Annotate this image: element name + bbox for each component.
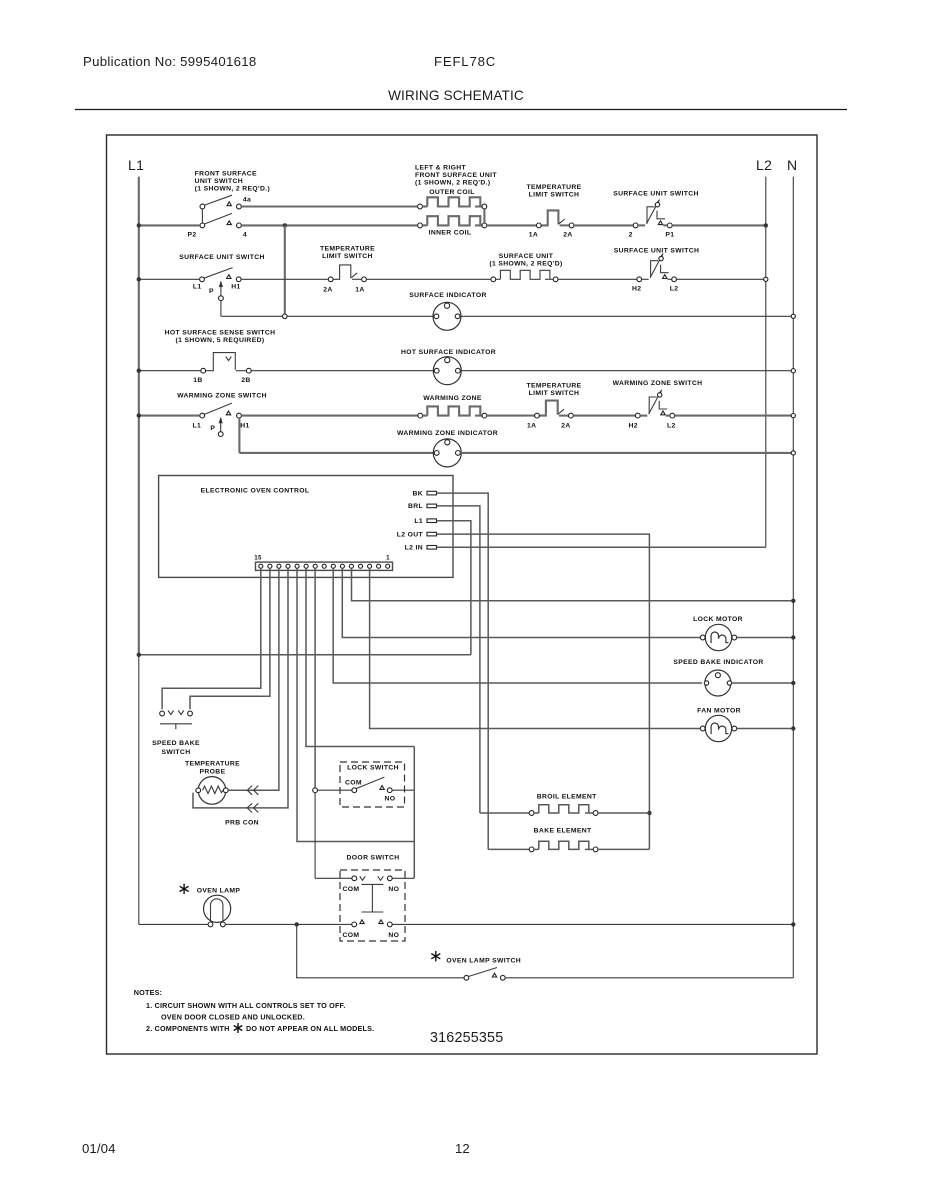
wire row1 main left (139, 224, 200, 226)
wire terminal 11 (297, 568, 414, 841)
svg-text:Publication No: 5995401618: Publication No: 5995401618 (83, 54, 257, 69)
svg-text:PRB CON: PRB CON (225, 820, 259, 827)
terminal strip 15-1 (256, 562, 393, 570)
probe connector PRB CON (228, 789, 245, 791)
wire lamp switch to N (505, 977, 793, 979)
junction t5 N (791, 599, 795, 603)
svg-text:2: 2 (629, 232, 633, 239)
svg-text:FRONT SURFACE: FRONT SURFACE (195, 171, 257, 178)
svg-text:LIMIT SWITCH: LIMIT SWITCH (529, 192, 580, 199)
svg-text:OVEN LAMP: OVEN LAMP (197, 888, 241, 895)
header rule (75, 109, 847, 111)
svg-text:1. CIRCUIT SHOWN WITH ALL CON: 1. CIRCUIT SHOWN WITH ALL CONTROLS SET T… (146, 1001, 346, 1010)
junction L1 feed (137, 653, 141, 657)
wire L2 rail (765, 177, 767, 548)
svg-text:L1: L1 (192, 423, 201, 430)
svg-text:1A: 1A (527, 423, 536, 430)
wire L1 rail upper (138, 177, 140, 655)
junction fan motor N (791, 726, 795, 730)
svg-text:12: 12 (455, 1141, 470, 1156)
svg-text:LIMIT SWITCH: LIMIT SWITCH (529, 390, 580, 397)
svg-text:COM: COM (345, 779, 362, 786)
junction lamp switch drop (295, 922, 299, 926)
svg-text:WARMING ZONE SWITCH: WARMING ZONE SWITCH (613, 380, 703, 387)
svg-text:LEFT & RIGHT: LEFT & RIGHT (415, 165, 467, 172)
svg-text:SURFACE UNIT SWITCH: SURFACE UNIT SWITCH (614, 248, 700, 255)
wire row1 to L2 (672, 224, 766, 226)
wire row2 left (139, 278, 200, 280)
svg-text:LOCK MOTOR: LOCK MOTOR (693, 616, 743, 623)
wire BRL (437, 506, 480, 813)
svg-text:316255355: 316255355 (430, 1030, 503, 1046)
wire terminal 14 (190, 568, 270, 709)
wire L2 IN (437, 546, 766, 548)
wire row2 to L2 (677, 278, 764, 280)
wire row2 c (558, 278, 637, 280)
svg-text:1B: 1B (193, 377, 202, 384)
wire N rail (792, 177, 794, 978)
svg-text:ELECTRONIC OVEN CONTROL: ELECTRONIC OVEN CONTROL (201, 488, 310, 495)
wire lamp switch drop (297, 924, 464, 977)
speed bake switch (160, 711, 165, 716)
wire row2 a (241, 278, 328, 280)
wire L1 out (437, 521, 471, 655)
svg-text:4a: 4a (243, 197, 251, 204)
wire terminal 12 (193, 568, 288, 808)
wire L1 rail lower (138, 655, 140, 924)
svg-text:L2 IN: L2 IN (405, 545, 423, 552)
wire indicator row left (221, 315, 283, 317)
lock switch (340, 762, 405, 807)
svg-text:UNIT SWITCH: UNIT SWITCH (195, 178, 243, 185)
terminal row2 L2 (764, 277, 768, 281)
svg-text:BRL: BRL (408, 503, 423, 510)
svg-text:(1 SHOWN, 2 REQ'D.): (1 SHOWN, 2 REQ'D.) (195, 186, 271, 193)
wire row3 to indicator (251, 370, 434, 372)
svg-text:WARMING ZONE: WARMING ZONE (423, 395, 482, 402)
wire terminal 7 (333, 568, 702, 683)
svg-text:4: 4 (243, 232, 247, 239)
wire fan motor to N (737, 728, 791, 730)
door switch lower pole (360, 920, 364, 924)
svg-text:FAN MOTOR: FAN MOTOR (697, 708, 741, 715)
svg-text:BAKE ELEMENT: BAKE ELEMENT (534, 828, 592, 835)
schematic border (107, 135, 818, 1054)
svg-text:P1: P1 (665, 232, 674, 239)
svg-text:SURFACE INDICATOR: SURFACE INDICATOR (409, 292, 486, 299)
junction lamp row N (791, 922, 795, 926)
svg-text:01/04: 01/04 (82, 1141, 116, 1156)
svg-text:SURFACE UNIT SWITCH: SURFACE UNIT SWITCH (179, 254, 265, 261)
terminal row3 N (791, 369, 795, 373)
wire terminal 15 (162, 568, 261, 709)
junction row1 L2 (764, 223, 768, 227)
wire row4 b (487, 415, 535, 417)
svg-text:FRONT SURFACE UNIT: FRONT SURFACE UNIT (415, 172, 497, 179)
svg-text:P2: P2 (187, 232, 196, 239)
svg-text:TEMPERATURE: TEMPERATURE (185, 761, 240, 768)
svg-text:NO: NO (385, 796, 396, 803)
svg-text:N: N (787, 157, 797, 173)
wire terminal 3 (370, 568, 702, 728)
wire terminal 6 (342, 568, 702, 637)
svg-text:(1 SHOWN, 2 REQ'D.): (1 SHOWN, 2 REQ'D.) (415, 180, 491, 187)
svg-text:SURFACE UNIT: SURFACE UNIT (499, 253, 554, 260)
terminal row2b N (791, 314, 795, 318)
svg-text:1: 1 (386, 555, 390, 562)
svg-text:SWITCH: SWITCH (162, 749, 191, 756)
wire to surface indicator (287, 315, 434, 317)
svg-text:L2: L2 (667, 423, 676, 430)
svg-text:(1 SHOWN, 2 REQ'D): (1 SHOWN, 2 REQ'D) (489, 261, 562, 268)
svg-text:(1 SHOWN, 5 REQUIRED): (1 SHOWN, 5 REQUIRED) (176, 337, 265, 344)
junction row1 drop (283, 223, 287, 227)
svg-text:OVEN DOOR CLOSED AND UNLOCKED.: OVEN DOOR CLOSED AND UNLOCKED. (161, 1013, 305, 1022)
wire lamp row left (139, 923, 208, 925)
svg-text:L2 OUT: L2 OUT (397, 531, 424, 538)
svg-text:HOT SURFACE SENSE SWITCH: HOT SURFACE SENSE SWITCH (165, 330, 276, 337)
svg-text:2B: 2B (241, 377, 250, 384)
junction L1 row1 (137, 223, 141, 227)
svg-text:L1: L1 (128, 157, 144, 173)
wire row2b to N (460, 315, 791, 317)
junction L1 row2 (137, 277, 141, 281)
oven lamp LP1 (183, 884, 185, 894)
svg-text:1A: 1A (355, 287, 364, 294)
svg-text:SPEED BAKE: SPEED BAKE (152, 740, 200, 747)
wire row1 right mid (574, 224, 633, 226)
wire row4b to N (460, 452, 791, 454)
wire lamp row mid (225, 923, 351, 925)
electronic oven control U1 (159, 476, 453, 578)
wire L2 OUT (437, 534, 650, 849)
svg-text:BROIL ELEMENT: BROIL ELEMENT (537, 794, 597, 801)
wire row2 b (366, 278, 491, 280)
wire speed bake to N (732, 682, 792, 684)
door switch linkage (362, 883, 384, 885)
wire row4 to N (675, 415, 792, 417)
svg-text:NO: NO (388, 932, 399, 939)
svg-text:TEMPERATURE: TEMPERATURE (526, 383, 581, 390)
svg-text:L2: L2 (670, 286, 679, 293)
wire BK (437, 493, 489, 849)
svg-text:H2: H2 (629, 423, 638, 430)
svg-text:TEMPERATURE: TEMPERATURE (526, 184, 581, 191)
svg-text:L1: L1 (193, 284, 202, 291)
svg-text:15: 15 (254, 555, 262, 562)
svg-text:WARMING ZONE SWITCH: WARMING ZONE SWITCH (177, 393, 267, 400)
svg-text:L2: L2 (756, 157, 772, 173)
wire row3 to N (460, 370, 791, 372)
wire terminal 10 (306, 568, 414, 746)
wire terminal 9 (314, 568, 316, 788)
wire row4 left (139, 415, 200, 417)
svg-text:SURFACE UNIT SWITCH: SURFACE UNIT SWITCH (613, 191, 699, 198)
wire row4b left (239, 452, 434, 454)
svg-text:TEMPERATURE: TEMPERATURE (320, 246, 375, 253)
wire row3 left (139, 370, 201, 372)
svg-text:2A: 2A (561, 423, 570, 430)
junction L2OUT broil (647, 811, 651, 815)
svg-text:WIRING SCHEMATIC: WIRING SCHEMATIC (388, 88, 524, 103)
svg-text:OVEN LAMP SWITCH: OVEN LAMP SWITCH (446, 958, 521, 965)
svg-text:2A: 2A (563, 232, 572, 239)
svg-text:BK: BK (412, 490, 423, 497)
svg-text:H1: H1 (231, 284, 240, 291)
junction L1 row4 (137, 413, 141, 417)
oven lamp switch (435, 951, 437, 961)
svg-text:INNER COIL: INNER COIL (429, 230, 472, 237)
terminal row4b N (791, 451, 795, 455)
wire row1 main to coil (241, 224, 417, 226)
svg-text:H2: H2 (632, 286, 641, 293)
svg-text:NOTES:: NOTES: (134, 988, 162, 997)
svg-text:DOOR SWITCH: DOOR SWITCH (347, 855, 400, 862)
svg-text:COM: COM (342, 886, 359, 893)
junction speed bake N (791, 681, 795, 685)
wire drop to indicator row (284, 225, 286, 316)
wire lock-door riser (413, 747, 415, 879)
svg-text:PROBE: PROBE (200, 769, 226, 776)
terminal row4 N (791, 414, 795, 418)
wire L1 feed row (139, 654, 471, 656)
junction L1 row3 (137, 369, 141, 373)
svg-text:P: P (209, 288, 214, 295)
wire row4 a (241, 415, 418, 417)
svg-text:DO NOT APPEAR ON ALL MODELS.: DO NOT APPEAR ON ALL MODELS. (246, 1024, 374, 1033)
svg-text:2. COMPONENTS WITH: 2. COMPONENTS WITH (146, 1024, 229, 1033)
wire terminal 13 (230, 568, 279, 790)
svg-text:2A: 2A (323, 287, 332, 294)
svg-text:1A: 1A (529, 232, 538, 239)
svg-text:HOT SURFACE INDICATOR: HOT SURFACE INDICATOR (401, 349, 496, 356)
wire lamp row right (392, 923, 791, 925)
wire lock com drop (314, 793, 316, 879)
svg-text:FEFL78C: FEFL78C (434, 54, 496, 69)
wire terminal 5 (352, 568, 792, 601)
wire row4 c (573, 415, 635, 417)
svg-text:H1: H1 (240, 423, 249, 430)
wire row1 upper branch (241, 205, 417, 207)
svg-text:P: P (210, 425, 215, 432)
svg-text:LOCK SWITCH: LOCK SWITCH (347, 765, 399, 772)
wire lock NO (392, 789, 414, 791)
svg-text:SPEED BAKE INDICATOR: SPEED BAKE INDICATOR (673, 659, 763, 666)
svg-text:NO: NO (388, 886, 399, 893)
junction lock motor N (791, 635, 795, 639)
svg-text:WARMING ZONE INDICATOR: WARMING ZONE INDICATOR (397, 430, 498, 437)
junction drop row2b (283, 314, 288, 319)
wire row1 mid (487, 224, 537, 226)
wire coil tie (483, 209, 485, 223)
svg-text:LIMIT SWITCH: LIMIT SWITCH (322, 253, 373, 260)
svg-text:L1: L1 (414, 518, 423, 525)
svg-text:COM: COM (342, 932, 359, 939)
wire lock motor to N (737, 637, 791, 639)
svg-text:OUTER COIL: OUTER COIL (429, 189, 474, 196)
wire H1 drop (238, 418, 240, 453)
